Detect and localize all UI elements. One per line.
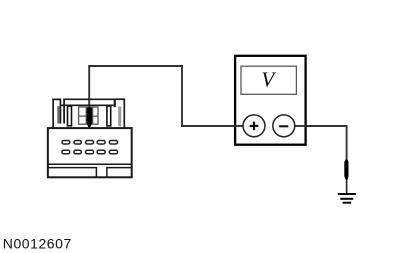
connector pin cavity row2 pin9 bbox=[97, 150, 105, 154]
wire from voltmeter negative terminal bbox=[294, 125, 348, 127]
test probe in connector cavity bbox=[87, 107, 93, 128]
voltmeter display window bbox=[241, 66, 296, 94]
ground symbol line 2 bbox=[340, 198, 353, 200]
wire down to ground probe bbox=[346, 125, 348, 161]
connector shroud right tab left wall bbox=[114, 100, 116, 107]
connector pin cavity row1 pin2 bbox=[74, 141, 81, 145]
wire stub to positive terminal bbox=[234, 125, 245, 127]
connector shroud right outer wall bbox=[116, 99, 124, 127]
wire into voltmeter positive terminal bbox=[181, 125, 245, 127]
connector pin cavity row1 pin4 bbox=[97, 141, 105, 145]
connector pin cavity row2 pin10 bbox=[109, 150, 117, 154]
connector pin cavity row1 pin5 bbox=[109, 141, 117, 145]
connector pin cavity row1 pin1 bbox=[62, 141, 70, 145]
voltmeter positive terminal bbox=[243, 115, 265, 137]
connector right keyway slot bbox=[107, 106, 111, 126]
voltmeter negative terminal minus sign bbox=[279, 125, 288, 127]
wire from connector probe up to top rail bbox=[88, 66, 90, 140]
wire vertical drop to meter level bbox=[181, 65, 183, 127]
ground test probe bbox=[344, 160, 348, 180]
connector shroud cover inner edge bbox=[61, 104, 114, 106]
connector left keyway slot bbox=[68, 106, 72, 126]
svg-text:N0012607: N0012607 bbox=[3, 236, 72, 252]
svg-text:V: V bbox=[261, 67, 276, 91]
connector shroud right tab inner rib bbox=[118, 107, 121, 127]
connector pin cavity row2 pin7 bbox=[74, 150, 81, 154]
connector bottom-left latch rib bbox=[48, 168, 132, 178]
connector terminal latch block bbox=[79, 107, 98, 124]
connector shroud left outer wall bbox=[53, 99, 60, 127]
voltmeter body bbox=[235, 56, 306, 145]
wire stub from negative terminal bbox=[293, 125, 306, 127]
ground symbol line 3 bbox=[343, 202, 352, 204]
wire top horizontal rail bbox=[88, 65, 183, 67]
connector latch block channel walls bbox=[86, 107, 93, 124]
wire ground probe tip lead bbox=[346, 178, 348, 194]
connector shroud left tab inner rib bbox=[57, 106, 59, 123]
connector pin cavity row1 pin3 bbox=[86, 141, 94, 145]
connector shroud cover top edge bbox=[63, 98, 124, 100]
connector body lower inner line bbox=[48, 163, 132, 165]
connector body outline bbox=[48, 128, 132, 177]
voltmeter negative terminal bbox=[273, 115, 295, 137]
connector shroud cover left bar bbox=[63, 99, 65, 123]
connector pin cavity row2 pin8 bbox=[86, 150, 94, 154]
connector pin cavity row2 pin6 bbox=[62, 150, 70, 154]
connector latch block mid line bbox=[79, 115, 98, 117]
ground symbol line 1 bbox=[338, 193, 356, 195]
voltmeter positive terminal plus sign bbox=[250, 122, 259, 131]
